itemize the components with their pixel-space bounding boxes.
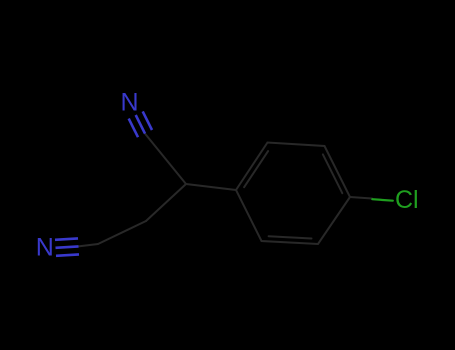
svg-text:N: N [121, 88, 139, 116]
svg-text:N: N [36, 234, 54, 262]
svg-text:Cl: Cl [395, 186, 419, 214]
